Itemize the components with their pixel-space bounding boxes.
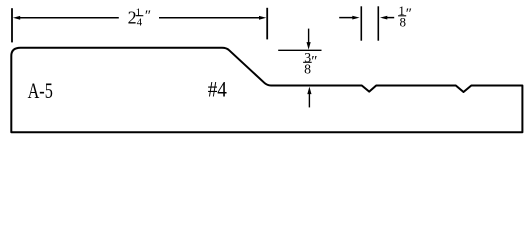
profile outline bbox=[11, 48, 522, 132]
dimension 2 1/4 inch: left dim line with arrow bbox=[13, 16, 119, 20]
dimension 1/8 inch: right extension line bbox=[377, 6, 379, 40]
dimension 3/8 inch: down arrow above top line bbox=[307, 29, 311, 50]
dimension 1/8 inch: right arrow pointing left bbox=[380, 16, 394, 20]
dimension 3/8 inch: up arrow below lower surface bbox=[307, 87, 311, 108]
dimension 2 1/4 inch: right dim line with arrow bbox=[159, 16, 266, 20]
dimension text 1/8" bbox=[398, 3, 412, 29]
dimension 1/8 inch: left arrow pointing right bbox=[339, 16, 359, 20]
svg-text:″: ″ bbox=[406, 6, 412, 22]
dimension 1/8 inch: left extension line bbox=[360, 6, 362, 40]
dimension text 2 1/4" bbox=[128, 7, 152, 29]
svg-text:″: ″ bbox=[311, 53, 317, 69]
svg-text:A-5: A-5 bbox=[28, 78, 53, 103]
svg-text:8: 8 bbox=[304, 62, 311, 77]
dimension 2 1/4 inch: left extension line bbox=[11, 8, 13, 42]
svg-text:″: ″ bbox=[145, 8, 151, 24]
svg-text:#4: #4 bbox=[208, 77, 227, 102]
dimension 2 1/4 inch: right extension line bbox=[266, 8, 268, 40]
dimension 3/8 inch: top extension line bbox=[278, 49, 321, 51]
svg-text:4: 4 bbox=[137, 16, 143, 28]
dimension text 3/8" bbox=[303, 50, 317, 77]
